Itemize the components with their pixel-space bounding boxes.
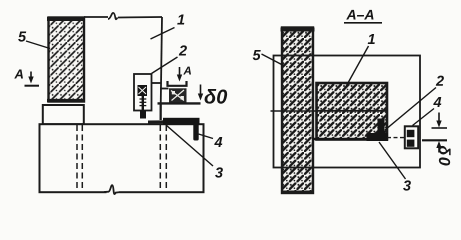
leader for 4 (right) xyxy=(413,109,435,126)
pedestal under column xyxy=(43,105,84,124)
label 4 (right view) xyxy=(433,97,441,107)
indicator threaded stem xyxy=(142,96,144,112)
gap dimension down arrow xyxy=(438,113,440,123)
indicator body black square xyxy=(138,85,148,96)
gap dimension up arrow xyxy=(438,147,440,153)
stand leg to base xyxy=(160,103,162,120)
label 3 (left view) xyxy=(215,167,223,177)
rail block 1 (section) xyxy=(317,83,388,140)
gap dimension lower tick xyxy=(422,139,447,141)
label 3 (right view) xyxy=(403,180,411,190)
top line right of break xyxy=(118,16,162,19)
label delta0 (rotated) xyxy=(439,146,451,166)
follower inner black top xyxy=(407,130,415,137)
column 5 bottom cap xyxy=(47,99,85,102)
joint line through housing xyxy=(271,110,388,112)
label A (gauge) xyxy=(183,67,191,75)
column 5 body xyxy=(49,18,85,102)
leader for 5 xyxy=(26,41,50,49)
joint line inside block xyxy=(317,110,388,112)
break squiggle in top line xyxy=(108,13,118,19)
title A-A xyxy=(346,10,373,20)
bar link to stand xyxy=(160,88,169,90)
gap arrow delta0 xyxy=(200,85,202,95)
column 5 bottom cap (section) xyxy=(281,191,314,194)
follower inner black bottom xyxy=(407,140,415,147)
column 5 top cap xyxy=(47,17,85,21)
indicator bracket 2 housing xyxy=(134,74,152,111)
dashed centre line to follower xyxy=(387,137,405,139)
indicator foot xyxy=(140,110,146,119)
column 5 top cap (section) xyxy=(281,28,315,32)
leader for 1 xyxy=(151,28,175,40)
housing outer rectangle xyxy=(274,56,421,168)
leader for 3 xyxy=(166,125,213,166)
reference surface line xyxy=(158,102,201,104)
leader for 5 (right) xyxy=(262,54,284,66)
section arrow A over gauge xyxy=(179,67,181,77)
cutter shank dark patch xyxy=(378,119,385,135)
workpiece bar 3 on base top xyxy=(163,118,200,125)
bracket link to head xyxy=(152,82,162,84)
gauge block hatched square xyxy=(169,88,187,103)
label 2 (right view) xyxy=(436,76,444,86)
leader for 2 (right) xyxy=(385,88,436,131)
hidden dashed line c xyxy=(159,125,161,189)
section mark A (left side) xyxy=(14,70,23,79)
thick worn top edge of base xyxy=(148,120,197,124)
follower 4 square xyxy=(405,126,418,148)
gap dimension upper tick xyxy=(432,127,448,129)
label delta0 (left) xyxy=(205,89,228,104)
column 5 (section) xyxy=(282,28,313,194)
label 1 (right view) xyxy=(368,34,375,44)
hidden dashed line d xyxy=(165,125,167,189)
leader for 2 xyxy=(152,57,178,74)
block thick bottom edge xyxy=(313,138,387,141)
hidden dashed line b xyxy=(81,125,83,189)
label 5 (right view) xyxy=(253,50,261,60)
leader for 4 xyxy=(199,134,214,139)
break squiggle in base bottom edge xyxy=(107,188,120,195)
leader for 1 (right) xyxy=(344,46,369,91)
cutter insert (black) xyxy=(367,133,389,141)
label 4 (left view) xyxy=(214,137,222,147)
gauge table top bar xyxy=(168,81,187,86)
vertical tool bar 4 xyxy=(193,123,198,141)
title underline xyxy=(344,22,382,24)
label 5 (left view) xyxy=(18,32,26,42)
label 1 (left view) xyxy=(177,15,184,25)
base block xyxy=(40,124,204,192)
top line of head part 1 xyxy=(84,16,108,18)
right edge of head part 1 xyxy=(161,17,163,120)
label 2 (left view) xyxy=(179,45,187,55)
hidden dashed line a xyxy=(76,125,78,189)
leader for 3 (right) xyxy=(379,142,406,179)
